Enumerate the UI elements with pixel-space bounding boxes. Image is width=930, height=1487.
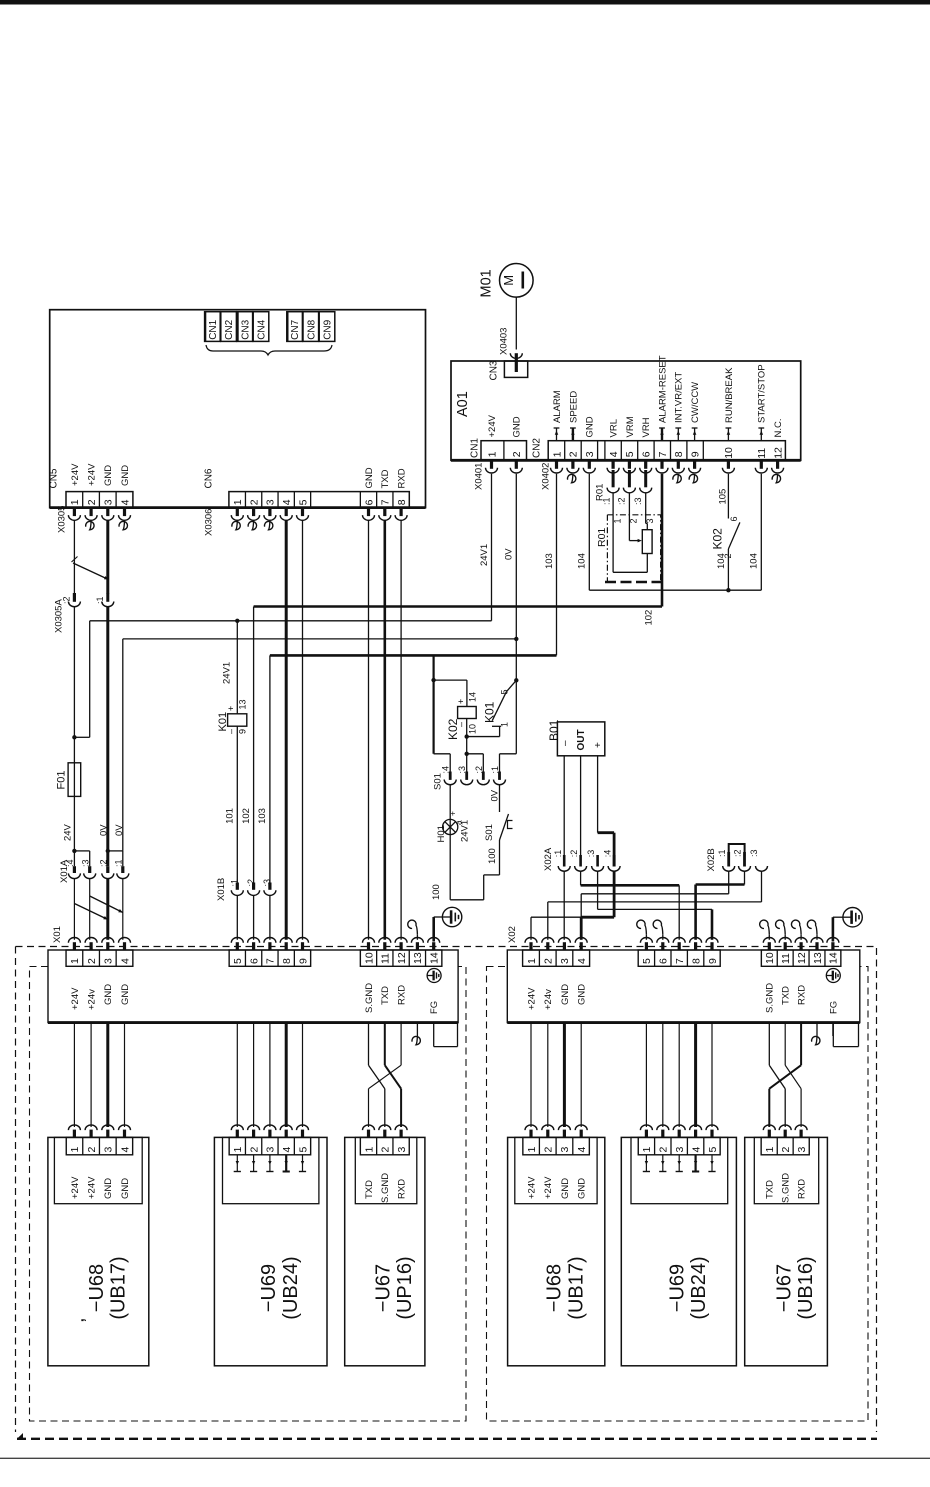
svg-text:GND: GND bbox=[560, 984, 571, 1005]
svg-text::1: :1 bbox=[553, 850, 563, 858]
svg-text:100: 100 bbox=[487, 848, 498, 864]
svg-text:101: 101 bbox=[225, 808, 236, 824]
svg-text:CW/CCW: CW/CCW bbox=[690, 382, 701, 423]
svg-text:2: 2 bbox=[511, 451, 523, 457]
svg-text:X0401: X0401 bbox=[473, 463, 484, 490]
svg-text:4: 4 bbox=[119, 1147, 131, 1153]
svg-text:104: 104 bbox=[749, 553, 760, 569]
svg-text:(UB17): (UB17) bbox=[107, 1256, 129, 1319]
svg-text:RXD: RXD bbox=[397, 985, 408, 1005]
svg-text:0V: 0V bbox=[114, 824, 125, 836]
svg-text:12: 12 bbox=[396, 952, 408, 964]
svg-text:24V1: 24V1 bbox=[479, 544, 490, 566]
svg-text:–: – bbox=[226, 729, 236, 734]
svg-text:3: 3 bbox=[103, 499, 115, 505]
svg-text:CN8: CN8 bbox=[306, 319, 317, 339]
svg-text:5: 5 bbox=[500, 689, 510, 694]
svg-text::4: :4 bbox=[603, 850, 613, 858]
svg-text:1: 1 bbox=[486, 451, 498, 457]
svg-text::2: :2 bbox=[99, 859, 109, 867]
svg-text:2: 2 bbox=[248, 1147, 260, 1153]
svg-text:CN4: CN4 bbox=[257, 319, 268, 339]
svg-text:M01: M01 bbox=[479, 269, 495, 297]
svg-text:8: 8 bbox=[690, 958, 702, 964]
svg-text:M: M bbox=[501, 275, 516, 286]
svg-text:,: , bbox=[67, 1317, 89, 1323]
svg-text:7: 7 bbox=[380, 499, 392, 505]
svg-text:X02: X02 bbox=[507, 926, 518, 943]
svg-text:4: 4 bbox=[119, 499, 131, 505]
svg-text:RXD: RXD bbox=[397, 468, 408, 488]
svg-text:GND: GND bbox=[103, 984, 114, 1005]
svg-text:4: 4 bbox=[119, 958, 131, 964]
svg-text:INT.VR/EXT: INT.VR/EXT bbox=[674, 372, 685, 423]
svg-text:2: 2 bbox=[86, 1147, 98, 1153]
svg-text:TXD: TXD bbox=[364, 1180, 375, 1199]
svg-text:X0305: X0305 bbox=[56, 506, 67, 533]
svg-text::2: :2 bbox=[62, 596, 72, 604]
svg-text:24V1: 24V1 bbox=[222, 662, 233, 684]
svg-text:2: 2 bbox=[568, 451, 580, 457]
svg-text:6: 6 bbox=[248, 958, 260, 964]
svg-text:3: 3 bbox=[103, 958, 115, 964]
svg-text::2: :2 bbox=[569, 850, 579, 858]
svg-text:GND: GND bbox=[120, 465, 131, 486]
svg-text:GND: GND bbox=[585, 416, 596, 437]
svg-text:–: – bbox=[456, 722, 466, 727]
svg-text:1: 1 bbox=[612, 518, 622, 523]
svg-text:3: 3 bbox=[645, 518, 655, 523]
svg-text:0V: 0V bbox=[99, 824, 110, 836]
svg-text:CN2: CN2 bbox=[224, 319, 235, 339]
svg-text:ALARM: ALARM bbox=[552, 390, 563, 423]
svg-text:RXD: RXD bbox=[797, 1179, 808, 1199]
svg-text:7: 7 bbox=[265, 958, 277, 964]
svg-text:S01: S01 bbox=[484, 824, 495, 841]
svg-text:+24V: +24V bbox=[87, 463, 98, 486]
svg-text:5: 5 bbox=[624, 451, 636, 457]
svg-text:−U69: −U69 bbox=[666, 1264, 688, 1312]
svg-text:102: 102 bbox=[241, 808, 252, 824]
svg-text:10: 10 bbox=[468, 724, 478, 734]
svg-text::3: :3 bbox=[586, 850, 596, 858]
svg-text:102: 102 bbox=[643, 610, 654, 626]
svg-text:3: 3 bbox=[584, 451, 596, 457]
svg-text:+24V: +24V bbox=[487, 414, 498, 437]
svg-text:+24v: +24v bbox=[87, 989, 98, 1010]
svg-text:8: 8 bbox=[673, 451, 685, 457]
svg-text:2: 2 bbox=[248, 499, 260, 505]
svg-text::3: :3 bbox=[633, 497, 643, 505]
svg-text:1: 1 bbox=[526, 1147, 538, 1153]
svg-text:CN3: CN3 bbox=[489, 360, 500, 380]
svg-text:3: 3 bbox=[559, 958, 571, 964]
svg-text::2: :2 bbox=[617, 497, 627, 505]
svg-text:CN3: CN3 bbox=[240, 319, 251, 339]
svg-text:103: 103 bbox=[257, 808, 268, 824]
svg-text:GND: GND bbox=[512, 416, 523, 437]
svg-text:1: 1 bbox=[641, 1147, 653, 1153]
svg-text:13: 13 bbox=[238, 699, 248, 709]
svg-text:TXD: TXD bbox=[380, 469, 391, 488]
svg-text:5: 5 bbox=[641, 958, 653, 964]
svg-text:2: 2 bbox=[543, 958, 555, 964]
svg-text:3: 3 bbox=[396, 1147, 408, 1153]
svg-text:S.GND: S.GND bbox=[765, 983, 776, 1013]
svg-text:K02: K02 bbox=[446, 718, 460, 740]
svg-text:CN7: CN7 bbox=[290, 319, 301, 339]
svg-text::1: :1 bbox=[602, 497, 612, 505]
svg-text:ALARM-RESET: ALARM-RESET bbox=[657, 355, 668, 423]
svg-text::3: :3 bbox=[80, 859, 90, 867]
svg-text:4: 4 bbox=[576, 958, 588, 964]
svg-text:(UP16): (UP16) bbox=[394, 1256, 416, 1319]
svg-text:2: 2 bbox=[86, 499, 98, 505]
svg-text:X02B: X02B bbox=[706, 848, 717, 871]
svg-text:105: 105 bbox=[717, 489, 728, 505]
svg-text:+24V: +24V bbox=[543, 1176, 554, 1199]
svg-text:1: 1 bbox=[551, 451, 563, 457]
svg-text:−U68: −U68 bbox=[86, 1264, 108, 1312]
svg-text:0V: 0V bbox=[489, 789, 500, 801]
svg-text:2: 2 bbox=[629, 518, 639, 523]
svg-text:+24V: +24V bbox=[70, 463, 81, 486]
svg-text:7: 7 bbox=[657, 451, 669, 457]
svg-text:3: 3 bbox=[265, 499, 277, 505]
svg-text:13: 13 bbox=[412, 952, 424, 964]
svg-text:+24v: +24v bbox=[543, 989, 554, 1010]
svg-text:RXD: RXD bbox=[397, 1179, 408, 1199]
svg-text:6: 6 bbox=[640, 451, 652, 457]
svg-text:5: 5 bbox=[232, 958, 244, 964]
svg-text:24V1: 24V1 bbox=[459, 820, 470, 842]
svg-text:7: 7 bbox=[674, 958, 686, 964]
svg-text:10: 10 bbox=[363, 952, 375, 964]
svg-text:VRM: VRM bbox=[625, 416, 636, 437]
svg-text:−U67: −U67 bbox=[372, 1264, 394, 1312]
svg-text:VRH: VRH bbox=[641, 417, 652, 437]
svg-text:104: 104 bbox=[716, 553, 727, 569]
svg-text:2: 2 bbox=[86, 958, 98, 964]
svg-text:S.GND: S.GND bbox=[364, 983, 375, 1013]
svg-text:GND: GND bbox=[120, 984, 131, 1005]
svg-text:1: 1 bbox=[232, 499, 244, 505]
svg-text:(UB17): (UB17) bbox=[565, 1256, 587, 1319]
svg-text:(UB24): (UB24) bbox=[688, 1256, 710, 1319]
svg-text:CN2: CN2 bbox=[532, 438, 543, 458]
svg-text:1: 1 bbox=[69, 1147, 81, 1153]
svg-text:OUT: OUT bbox=[576, 729, 587, 750]
svg-text:A01: A01 bbox=[455, 391, 471, 417]
svg-text:GND: GND bbox=[577, 984, 588, 1005]
svg-text:+24V: +24V bbox=[70, 987, 81, 1010]
svg-text:6: 6 bbox=[658, 958, 670, 964]
svg-text:8: 8 bbox=[281, 958, 293, 964]
svg-text:5: 5 bbox=[707, 1147, 719, 1153]
svg-text:6: 6 bbox=[363, 499, 375, 505]
svg-text:9: 9 bbox=[297, 958, 309, 964]
svg-text:R01: R01 bbox=[596, 528, 608, 547]
svg-text:4: 4 bbox=[576, 1147, 588, 1153]
svg-text:N.C.: N.C. bbox=[773, 419, 784, 438]
svg-text:1: 1 bbox=[69, 958, 81, 964]
svg-text:1: 1 bbox=[764, 1147, 776, 1153]
svg-text:24V: 24V bbox=[63, 823, 74, 841]
svg-text:10: 10 bbox=[723, 447, 735, 459]
svg-text:CN5: CN5 bbox=[49, 468, 60, 488]
svg-text:GND: GND bbox=[120, 1178, 131, 1199]
svg-text:2: 2 bbox=[543, 1147, 555, 1153]
svg-text:5: 5 bbox=[297, 1147, 309, 1153]
svg-text:H01: H01 bbox=[436, 825, 447, 842]
svg-text:14: 14 bbox=[828, 952, 840, 964]
svg-text:+24V: +24V bbox=[526, 1176, 537, 1199]
svg-text:+24V: +24V bbox=[70, 1176, 81, 1199]
svg-text:+24V: +24V bbox=[87, 1176, 98, 1199]
svg-text:CN1: CN1 bbox=[208, 319, 219, 339]
svg-text:2: 2 bbox=[658, 1147, 670, 1153]
svg-text:104: 104 bbox=[577, 553, 588, 569]
svg-text:X01: X01 bbox=[52, 926, 63, 943]
svg-text:TXD: TXD bbox=[781, 986, 792, 1005]
svg-text:4: 4 bbox=[281, 499, 293, 505]
svg-text:9: 9 bbox=[238, 729, 248, 734]
svg-text:+: + bbox=[448, 811, 458, 816]
svg-text:1: 1 bbox=[500, 722, 510, 727]
svg-text:1: 1 bbox=[69, 499, 81, 505]
svg-text:SPEED: SPEED bbox=[568, 391, 579, 423]
svg-text:FG: FG bbox=[429, 1001, 440, 1014]
svg-text::1: :1 bbox=[114, 859, 124, 867]
svg-text:GND: GND bbox=[560, 1178, 571, 1199]
svg-text:11: 11 bbox=[756, 448, 768, 459]
svg-text:6: 6 bbox=[729, 516, 739, 521]
svg-text:CN9: CN9 bbox=[323, 319, 334, 339]
svg-text:+24V: +24V bbox=[526, 987, 537, 1010]
svg-text:VRL: VRL bbox=[609, 419, 620, 437]
svg-text:2: 2 bbox=[380, 1147, 392, 1153]
svg-text:−U67: −U67 bbox=[774, 1264, 796, 1312]
svg-text:1: 1 bbox=[363, 1147, 375, 1153]
svg-text:10: 10 bbox=[764, 952, 776, 964]
svg-text:CN1: CN1 bbox=[470, 438, 481, 458]
svg-text:K01: K01 bbox=[217, 712, 229, 732]
svg-text:S.GND: S.GND bbox=[380, 1173, 391, 1203]
svg-text:3: 3 bbox=[265, 1147, 277, 1153]
svg-text:+: + bbox=[456, 699, 466, 704]
svg-text:(UB16): (UB16) bbox=[795, 1256, 817, 1319]
svg-text:GND: GND bbox=[577, 1178, 588, 1199]
svg-text:3: 3 bbox=[103, 1147, 115, 1153]
svg-text:GND: GND bbox=[103, 465, 114, 486]
svg-text:14: 14 bbox=[428, 952, 440, 964]
svg-text:12: 12 bbox=[772, 447, 784, 459]
svg-text:2: 2 bbox=[780, 1147, 792, 1153]
svg-text:RUN/BREAK: RUN/BREAK bbox=[724, 367, 735, 423]
svg-text:RXD: RXD bbox=[797, 985, 808, 1005]
svg-text:4: 4 bbox=[281, 1147, 293, 1153]
svg-text:9: 9 bbox=[707, 958, 719, 964]
svg-text:X01B: X01B bbox=[216, 878, 227, 901]
svg-text::3: :3 bbox=[749, 849, 759, 857]
svg-text:S.GND: S.GND bbox=[781, 1173, 792, 1203]
svg-text:8: 8 bbox=[396, 499, 408, 505]
svg-text:X0403: X0403 bbox=[498, 328, 509, 355]
svg-text:4: 4 bbox=[690, 1147, 702, 1153]
svg-text:4: 4 bbox=[608, 451, 620, 457]
svg-text:GND: GND bbox=[103, 1178, 114, 1199]
svg-text:3: 3 bbox=[559, 1147, 571, 1153]
svg-text:K01: K01 bbox=[482, 701, 496, 723]
svg-text:3: 3 bbox=[796, 1147, 808, 1153]
svg-text:100: 100 bbox=[431, 884, 442, 900]
svg-text:+: + bbox=[593, 742, 604, 748]
svg-text:TXD: TXD bbox=[765, 1180, 776, 1199]
svg-text:X0402: X0402 bbox=[540, 463, 551, 490]
svg-text:START/STOP: START/STOP bbox=[757, 364, 768, 423]
svg-text:0V: 0V bbox=[504, 548, 515, 560]
svg-text:−U68: −U68 bbox=[544, 1264, 566, 1312]
svg-text:3: 3 bbox=[674, 1147, 686, 1153]
svg-text:11: 11 bbox=[780, 953, 792, 964]
svg-text:TXD: TXD bbox=[380, 986, 391, 1005]
svg-text::1: :1 bbox=[95, 596, 105, 604]
svg-text:+: + bbox=[226, 706, 236, 711]
svg-text:−U69: −U69 bbox=[258, 1264, 280, 1312]
svg-text:CN6: CN6 bbox=[204, 468, 215, 488]
svg-text:(UB24): (UB24) bbox=[280, 1256, 302, 1319]
svg-text:1: 1 bbox=[526, 958, 538, 964]
svg-text:FG: FG bbox=[828, 1001, 839, 1014]
svg-text:B01: B01 bbox=[547, 719, 561, 741]
svg-text:11: 11 bbox=[380, 953, 392, 964]
svg-text:12: 12 bbox=[796, 952, 808, 964]
svg-text:K02: K02 bbox=[710, 528, 724, 550]
svg-text::2: :2 bbox=[733, 849, 743, 857]
svg-text::4: :4 bbox=[65, 859, 75, 867]
svg-text:–: – bbox=[560, 740, 571, 746]
svg-text:1: 1 bbox=[232, 1147, 244, 1153]
svg-text:14: 14 bbox=[468, 692, 478, 702]
svg-text:13: 13 bbox=[812, 952, 824, 964]
svg-text:9: 9 bbox=[689, 451, 701, 457]
svg-text:F01: F01 bbox=[55, 771, 67, 790]
svg-text:X0306: X0306 bbox=[203, 509, 214, 536]
svg-text:GND: GND bbox=[364, 467, 375, 488]
svg-text:S01: S01 bbox=[432, 773, 443, 790]
svg-text:103: 103 bbox=[544, 553, 555, 569]
svg-text::1: :1 bbox=[717, 849, 727, 857]
svg-text:5: 5 bbox=[297, 499, 309, 505]
